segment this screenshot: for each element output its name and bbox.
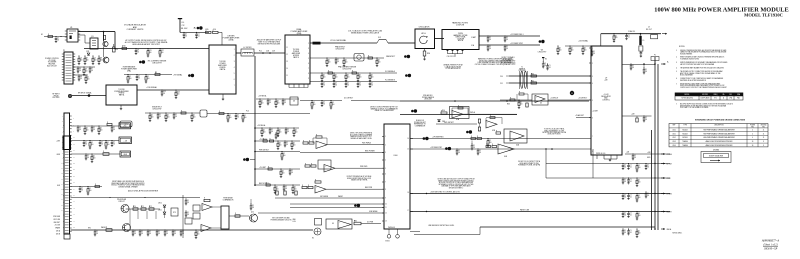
op-amp U8A xyxy=(202,204,212,211)
wire rwd power xyxy=(300,152,384,154)
comparator output wire xyxy=(229,215,249,217)
svg-text:CR11: CR11 xyxy=(158,210,162,212)
svg-text:HYBRID: HYBRID xyxy=(219,67,226,69)
svg-text:U102: U102 xyxy=(672,137,675,139)
svg-text:.01: .01 xyxy=(549,67,551,69)
J3 RF arrow xyxy=(662,33,667,35)
svg-text:.01: .01 xyxy=(149,233,151,235)
svg-text:C1: C1 xyxy=(628,35,630,37)
svg-text:HYBRID: HYBRID xyxy=(293,55,300,57)
svg-text:C1: C1 xyxy=(624,165,626,167)
svg-text:PIN: PIN xyxy=(751,126,753,128)
IPA detect row xyxy=(145,112,200,114)
svg-text:.01: .01 xyxy=(198,35,200,37)
svg-text:POWER SELECT: POWER SELECT xyxy=(414,122,426,124)
svg-text:R61: R61 xyxy=(531,80,534,82)
svg-text:R: R xyxy=(486,144,487,146)
svg-text:P1: P1 xyxy=(63,50,65,52)
svg-text:PIN: PIN xyxy=(762,126,764,128)
svg-text:C1: C1 xyxy=(323,83,325,85)
branch wire 1 xyxy=(255,140,300,142)
svg-text:.01: .01 xyxy=(187,214,189,216)
svg-text:11: 11 xyxy=(763,130,765,132)
svg-text:C1: C1 xyxy=(624,195,626,197)
connector J1 pins right xyxy=(70,115,72,117)
svg-text:C1: C1 xyxy=(113,127,115,129)
svg-text:POWER: POWER xyxy=(750,125,755,127)
svg-text:R: R xyxy=(48,34,49,36)
blob marker D xyxy=(423,137,426,140)
svg-text:L-C FILTER: L-C FILTER xyxy=(243,47,252,49)
svg-text:.01: .01 xyxy=(80,78,82,80)
bottom small parts xyxy=(107,123,112,125)
svg-text:R72: R72 xyxy=(149,206,152,208)
svg-text:KEY LINE: KEY LINE xyxy=(54,219,60,221)
svg-text:CONTROL: CONTROL xyxy=(602,100,610,102)
svg-text:FL1 SENSE B: FL1 SENSE B xyxy=(385,79,395,81)
svg-text:+5 SEN: +5 SEN xyxy=(667,193,672,195)
svg-text:.01: .01 xyxy=(277,136,279,138)
svg-text:.01: .01 xyxy=(91,70,93,72)
+5V adjust wire xyxy=(576,117,591,119)
svg-text:.01: .01 xyxy=(506,39,508,41)
svg-text:C9: C9 xyxy=(137,50,139,52)
svg-text:C1: C1 xyxy=(57,38,59,40)
blob marker F xyxy=(354,204,357,207)
offpage box +28 xyxy=(119,137,132,144)
svg-text:R: R xyxy=(492,144,493,146)
wire +5 power reg xyxy=(479,35,540,37)
offpage box GND xyxy=(120,151,131,157)
ferrite block on output xyxy=(313,42,321,45)
model table xyxy=(675,93,743,100)
svg-text:.01: .01 xyxy=(624,232,626,234)
svg-text:C1: C1 xyxy=(159,114,161,116)
svg-text:.01: .01 xyxy=(473,147,475,149)
feedback resistor xyxy=(204,199,210,201)
resistor R50 xyxy=(441,112,447,114)
wire +5 power reg right xyxy=(410,138,589,140)
wire regulator output xyxy=(78,31,115,33)
resistor R41 xyxy=(639,46,643,51)
bus vertical 2 xyxy=(654,57,656,230)
resistor pair on reg wire xyxy=(471,137,476,139)
svg-text:.01: .01 xyxy=(347,85,349,87)
svg-text:+5V DETECT: +5V DETECT xyxy=(578,98,587,100)
svg-text:+5 POWER REG 1: +5 POWER REG 1 xyxy=(510,34,524,36)
svg-text:C1: C1 xyxy=(284,100,286,102)
wire to circulator xyxy=(400,42,415,44)
RF input connector J1 xyxy=(68,94,71,97)
svg-text:COUPLER PRESENT: COUPLER PRESENT xyxy=(501,61,516,63)
voltage regulator U1 xyxy=(67,29,78,42)
svg-text:.01: .01 xyxy=(163,93,165,95)
svg-text:+24V: +24V xyxy=(631,114,635,116)
transformer T1 xyxy=(521,71,524,88)
svg-text:.01: .01 xyxy=(624,197,626,199)
svg-text:.01: .01 xyxy=(634,157,636,159)
svg-text:PWR DETECT: PWR DETECT xyxy=(259,149,269,151)
svg-text:C1: C1 xyxy=(630,213,632,215)
left stubs xyxy=(506,75,509,77)
svg-text:HYBRID: HYBRID xyxy=(119,93,126,95)
svg-text:LEVEL SET POINTS: LEVEL SET POINTS xyxy=(548,134,561,136)
svg-text:U100: U100 xyxy=(393,155,397,157)
svg-text:.01: .01 xyxy=(158,233,160,235)
svg-text:+9.6V: +9.6V xyxy=(667,178,671,180)
svg-text:11: 11 xyxy=(763,137,765,139)
svg-text:.01: .01 xyxy=(287,131,289,133)
svg-text:.01: .01 xyxy=(237,117,239,119)
svg-text:.01: .01 xyxy=(285,188,287,190)
U7 left pins xyxy=(589,47,591,49)
svg-text:TLF1930: TLF1930 xyxy=(118,89,124,91)
wire U7 top right B+ xyxy=(622,64,655,66)
svg-text:.01: .01 xyxy=(159,116,161,118)
wire to relay xyxy=(361,223,381,225)
svg-text:15: 15 xyxy=(286,75,288,77)
blob marker B1 xyxy=(188,74,191,77)
svg-text:POWER: POWER xyxy=(219,63,226,65)
svg-text:+24 DET: +24 DET xyxy=(592,111,598,113)
svg-text:.01: .01 xyxy=(489,48,491,50)
svg-text:FL3: FL3 xyxy=(378,37,381,39)
svg-text:KEY SENSE: KEY SENSE xyxy=(320,196,328,198)
svg-text:.01: .01 xyxy=(630,215,632,217)
wire IPA to DPA xyxy=(137,89,209,91)
circulator load resistor R30 xyxy=(424,48,426,51)
svg-text:+5 CIRCUIT: +5 CIRCUIT xyxy=(550,98,558,100)
svg-text:CIRCUITRY: CIRCUITRY xyxy=(152,63,163,65)
svg-text:CIRCUITRY: CIRCUITRY xyxy=(335,49,345,51)
pa key wire bottom xyxy=(71,229,314,231)
svg-text:C1: C1 xyxy=(81,188,83,190)
op-amp U2A xyxy=(450,107,470,119)
current sense rail A xyxy=(310,72,397,74)
svg-text:.01: .01 xyxy=(174,233,176,235)
svg-text:B+ OUT: B+ OUT xyxy=(667,163,673,165)
svg-text:C1: C1 xyxy=(489,37,491,39)
wire RF input xyxy=(72,95,106,97)
L-C filter FL1 xyxy=(241,49,254,56)
U3 feedback resistor xyxy=(519,93,524,95)
lower wire xyxy=(436,123,477,125)
svg-text:MIL 100V: MIL 100V xyxy=(181,28,187,30)
wire U7 right +24 xyxy=(622,115,652,117)
svg-text:C1: C1 xyxy=(624,213,626,215)
harmonic filter coupler box xyxy=(442,30,479,50)
DC detect wire xyxy=(300,100,342,102)
op-amp TP2 xyxy=(200,110,207,117)
svg-text:U1: U1 xyxy=(70,27,72,29)
key feed wire xyxy=(71,197,201,199)
wire J3 RF out xyxy=(600,34,602,46)
svg-text:EXCITER: EXCITER xyxy=(53,97,61,99)
svg-text:FL4: FL4 xyxy=(246,111,249,113)
IPA bottom stub xyxy=(120,105,122,108)
svg-text:C12: C12 xyxy=(182,25,185,27)
U7 bottom +5 wire xyxy=(625,153,670,155)
svg-text:C1: C1 xyxy=(359,83,361,85)
svg-text:.01: .01 xyxy=(81,190,83,192)
svg-text:.01: .01 xyxy=(630,197,632,199)
svg-text:C7: C7 xyxy=(91,68,93,70)
op-amp stage 3 xyxy=(315,186,326,194)
svg-text:R: R xyxy=(311,163,312,165)
resistor stack left of U2B xyxy=(478,119,480,123)
bus line A xyxy=(410,193,670,195)
svg-text:R: R xyxy=(270,138,271,140)
svg-text:C1: C1 xyxy=(237,115,239,117)
svg-text:IN MICROHENRIES: IN MICROHENRIES xyxy=(680,53,692,55)
wire +5 power stby right xyxy=(410,148,589,150)
svg-text:.01: .01 xyxy=(632,67,634,69)
resistor R10 on rail xyxy=(122,47,127,49)
svg-text:17: 17 xyxy=(407,210,409,212)
svg-text:MC3403: MC3403 xyxy=(682,130,687,132)
svg-text:U7: U7 xyxy=(605,78,607,80)
svg-text:FWD DETECT: FWD DETECT xyxy=(444,122,454,124)
svg-text:R60: R60 xyxy=(531,73,534,75)
svg-text:19D190--GP: 19D190--GP xyxy=(764,247,778,250)
svg-text:C1: C1 xyxy=(647,193,649,195)
IPA bias components xyxy=(124,74,172,76)
svg-text:.01: .01 xyxy=(185,35,187,37)
svg-text:RF OUT: RF OUT xyxy=(646,29,652,31)
svg-text:+5V LIMIT: +5V LIMIT xyxy=(259,167,266,169)
svg-text:GND RET: GND RET xyxy=(54,222,61,224)
svg-text:L3: L3 xyxy=(155,72,157,74)
svg-text:NOTES:: NOTES: xyxy=(679,46,685,48)
blob marker E1 xyxy=(404,55,407,58)
svg-text:R: R xyxy=(106,227,107,229)
svg-text:C1: C1 xyxy=(630,165,632,167)
svg-text:C1: C1 xyxy=(593,51,595,53)
svg-text:C1: C1 xyxy=(624,230,626,232)
svg-text:CR10: CR10 xyxy=(158,203,162,205)
svg-text:16: 16 xyxy=(752,141,754,143)
op-amp U2B xyxy=(486,121,497,129)
svg-text:.01: .01 xyxy=(544,65,546,67)
vertical drop right xyxy=(592,149,594,178)
svg-text:.01: .01 xyxy=(647,167,649,169)
branch 1 parts xyxy=(263,140,267,142)
svg-text:COUPLER: COUPLER xyxy=(456,25,465,27)
svg-text:Q12: Q12 xyxy=(251,212,254,214)
svg-text:.01: .01 xyxy=(79,70,81,72)
svg-text:C18: C18 xyxy=(266,51,269,53)
svg-text:C30 C31 C32: C30 C31 C32 xyxy=(447,56,457,58)
svg-text:R: R xyxy=(263,138,264,140)
wire opamp out xyxy=(463,113,517,115)
svg-text:11: 11 xyxy=(763,133,765,135)
+5V distribution vertical xyxy=(254,56,256,186)
svg-text:.01: .01 xyxy=(166,233,168,235)
wire +28V row xyxy=(71,140,120,142)
connector J1 end box xyxy=(64,234,70,239)
svg-text:U4B: U4B xyxy=(504,156,507,158)
svg-text:E2: E2 xyxy=(312,238,314,240)
svg-text:.01: .01 xyxy=(187,202,189,204)
svg-text:13: 13 xyxy=(286,61,288,63)
svg-text:TO DRIVER: TO DRIVER xyxy=(48,62,57,64)
svg-text:.01: .01 xyxy=(323,104,325,106)
svg-text:C1: C1 xyxy=(286,142,288,144)
svg-text:J3: J3 xyxy=(648,27,650,29)
svg-text:TYPE: TYPE xyxy=(683,125,687,127)
svg-text:C51: C51 xyxy=(500,83,503,85)
svg-text:R63: R63 xyxy=(507,104,510,106)
svg-text:MODEL TLF1930C: MODEL TLF1930C xyxy=(744,13,783,18)
IC power ground table xyxy=(669,124,768,147)
svg-text:T1: T1 xyxy=(521,67,523,69)
svg-text:15: 15 xyxy=(407,149,409,151)
svg-text:C1: C1 xyxy=(479,150,481,152)
svg-text:.01: .01 xyxy=(101,144,103,146)
svg-text:(IPA): (IPA) xyxy=(127,70,131,73)
svg-text:TP1: TP1 xyxy=(125,124,128,126)
svg-text:U2B: U2B xyxy=(492,130,495,132)
branch wire 4 xyxy=(255,184,300,186)
bus vertical from U100 bottom xyxy=(414,234,480,236)
svg-text:R: R xyxy=(519,91,520,93)
svg-text:.01: .01 xyxy=(624,181,626,183)
transistor Q10 xyxy=(121,205,129,213)
svg-text:C1: C1 xyxy=(285,186,287,188)
svg-text:C1: C1 xyxy=(134,231,136,233)
svg-text:TLF1930: TLF1930 xyxy=(219,61,225,63)
svg-text:U104: U104 xyxy=(672,145,675,147)
svg-text:R: R xyxy=(471,136,472,138)
connector J1 pins left xyxy=(63,118,64,120)
svg-text:C1: C1 xyxy=(647,165,649,167)
svg-text:C1: C1 xyxy=(473,145,475,147)
svg-text:.01: .01 xyxy=(647,195,649,197)
blob marker top xyxy=(197,27,200,30)
detector opamp U4B xyxy=(498,144,514,154)
branch wire 2 xyxy=(255,151,300,153)
transistor Q3 xyxy=(103,57,109,63)
svg-text:C1: C1 xyxy=(187,212,189,214)
diode CR5 xyxy=(438,120,441,122)
svg-text:R10: R10 xyxy=(123,46,126,48)
current sense rail B xyxy=(310,81,397,83)
svg-text:R4: R4 xyxy=(116,49,118,51)
E terminal xyxy=(314,228,321,235)
svg-text:REV PWR: REV PWR xyxy=(365,187,373,189)
svg-text:C1: C1 xyxy=(506,46,508,48)
svg-text:L5: L5 xyxy=(643,40,645,42)
wire sample B xyxy=(509,82,591,84)
svg-text:C14: C14 xyxy=(213,29,216,31)
power detect wire 2 xyxy=(400,114,517,116)
svg-text:R: R xyxy=(204,198,205,200)
svg-text:C1: C1 xyxy=(347,83,349,85)
svg-text:.01: .01 xyxy=(113,129,115,131)
svg-text:.01: .01 xyxy=(113,144,115,146)
wire L1 supply xyxy=(180,31,209,33)
svg-text:MC3403: MC3403 xyxy=(682,137,687,139)
svg-text:C1: C1 xyxy=(634,155,636,157)
svg-text:R: R xyxy=(181,110,182,112)
svg-text:R: R xyxy=(305,163,306,165)
svg-text:C1: C1 xyxy=(458,150,460,152)
svg-text:PWR1 GD GD: PWR1 GD GD xyxy=(596,153,605,155)
resistor R73 box xyxy=(171,208,178,216)
svg-text:R73: R73 xyxy=(173,212,176,214)
svg-text:C1: C1 xyxy=(291,170,293,172)
svg-text:C8: C8 xyxy=(80,76,82,78)
svg-text:INTEGRATED CIRCUIT POWER AND G: INTEGRATED CIRCUIT POWER AND GROUND CONN… xyxy=(695,119,746,122)
U100 right pins xyxy=(410,138,413,140)
long wire forward sense xyxy=(400,100,589,102)
+5V regulator box U6 xyxy=(290,97,298,105)
svg-text:C1: C1 xyxy=(158,231,160,233)
transistor Q2 xyxy=(103,41,108,46)
svg-text:POWER CONTROL: POWER CONTROL xyxy=(45,58,59,60)
svg-text:LEVEL AND ADJACENT CIRCUITRY: LEVEL AND ADJACENT CIRCUITRY xyxy=(132,43,161,46)
svg-text:LED B: LED B xyxy=(56,233,60,235)
blob input marker xyxy=(88,94,91,97)
svg-text:PIN DRIVER: PIN DRIVER xyxy=(117,199,127,201)
svg-text:16: 16 xyxy=(752,145,754,147)
bus junction dots xyxy=(654,163,655,164)
branch vertical x546 xyxy=(545,149,547,178)
svg-text:R: R xyxy=(219,111,220,113)
svg-text:C1: C1 xyxy=(185,34,187,36)
svg-text:.01: .01 xyxy=(57,40,59,42)
blob marker E2 xyxy=(405,74,408,77)
svg-text:REFERENCE TO: REFERENCE TO xyxy=(414,124,427,126)
svg-text:R: R xyxy=(309,140,310,142)
svg-text:C1: C1 xyxy=(79,127,81,129)
svg-text:R: R xyxy=(266,182,267,184)
svg-text:U103: U103 xyxy=(672,141,675,143)
svg-text:+9.6 SW: +9.6 SW xyxy=(54,225,60,227)
components right of P1 row2 xyxy=(73,66,95,68)
connector J1 head xyxy=(63,136,71,150)
svg-text:870: 870 xyxy=(714,98,716,100)
svg-text:.01: .01 xyxy=(645,119,647,121)
svg-text:C1: C1 xyxy=(269,100,271,102)
op-amp stage 2 box xyxy=(318,160,331,169)
bus line C xyxy=(480,226,655,228)
svg-text:C1: C1 xyxy=(187,200,189,202)
svg-text:U100: U100 xyxy=(672,130,675,132)
svg-text:C1: C1 xyxy=(271,129,273,131)
svg-text:C1: C1 xyxy=(93,127,95,129)
svg-text:C1: C1 xyxy=(101,142,103,144)
blob marker C2 xyxy=(466,131,469,134)
svg-text:FROM: FROM xyxy=(54,95,59,97)
resistor R3 xyxy=(103,36,105,40)
svg-text:R: R xyxy=(490,115,491,117)
svg-text:.01: .01 xyxy=(284,102,286,104)
svg-text:12: 12 xyxy=(286,54,288,56)
svg-text:.01: .01 xyxy=(645,71,647,73)
svg-text:CIRCUITRY: CIRCUITRY xyxy=(152,109,162,111)
box Z3 xyxy=(315,219,322,226)
svg-text:C1: C1 xyxy=(544,63,546,65)
IPA hybrid box xyxy=(106,85,137,105)
op-amp in box U9 xyxy=(326,219,352,229)
wire sample A xyxy=(509,75,591,77)
inductor L5 vertical bar xyxy=(639,36,641,45)
svg-text:R: R xyxy=(107,122,108,124)
+5V regulator module box U7 xyxy=(591,46,622,155)
op-amp stage 1 xyxy=(316,141,327,149)
svg-text:C1: C1 xyxy=(138,76,140,78)
